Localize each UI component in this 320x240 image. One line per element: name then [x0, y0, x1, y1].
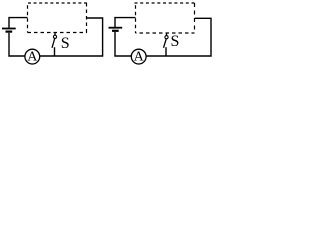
black box (dashed) right : top edge [135, 2, 195, 4]
switch S1 fixed contact [54, 32, 56, 35]
black box (dashed) left : left edge [27, 5, 29, 32]
black box (dashed) left : bottom edge [28, 32, 88, 34]
wire switch to bottom (right) [165, 47, 167, 56]
battery B2 short plate [112, 30, 119, 32]
battery B1 long plate [2, 28, 16, 30]
ammeter A (left) circle [25, 49, 40, 64]
wire top-left (battery top to box left edge) right circuit [115, 18, 136, 27]
switch S1 contact circle [53, 35, 56, 38]
svg-text:A: A [27, 50, 38, 65]
switch S1 lever [52, 39, 55, 48]
black box (dashed) right : bottom edge [136, 32, 195, 34]
black box (dashed) left : right edge [86, 3, 88, 33]
wire left-bottom (battery to ammeter) [9, 33, 25, 56]
wire bottom-right (ammeter to right side, up, into box right edge) right circuit [146, 18, 211, 56]
wire switch to bottom [54, 47, 56, 56]
svg-text:A: A [134, 50, 145, 65]
wire left-bottom (battery to ammeter) right circuit [115, 32, 132, 56]
wire top-left (battery top to box left edge) [9, 18, 28, 28]
switch S2 lever [164, 39, 167, 48]
battery B2 long plate [109, 27, 123, 29]
black box (dashed) right : left edge [135, 5, 137, 33]
switch S2 fixed contact [166, 33, 168, 36]
svg-text:S: S [61, 35, 70, 52]
black box (dashed) left : top edge [28, 2, 87, 4]
wire bottom-right (ammeter to right side, up, into box right edge) [40, 18, 103, 56]
battery B1 short plate [6, 31, 13, 33]
svg-text:S: S [171, 33, 180, 50]
switch S2 contact circle [165, 36, 168, 39]
black box (dashed) right : right edge [194, 3, 196, 33]
ammeter A (right) circle [131, 49, 146, 64]
